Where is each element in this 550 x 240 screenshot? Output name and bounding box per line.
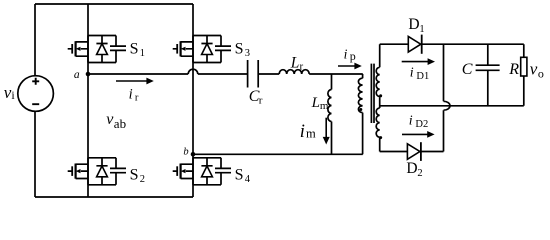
svg-text:i: i <box>344 46 348 61</box>
svg-text:a: a <box>74 69 80 81</box>
svg-text:S: S <box>235 167 244 184</box>
svg-text:S: S <box>130 167 139 184</box>
svg-text:p: p <box>350 49 356 63</box>
svg-text:m: m <box>306 127 316 141</box>
svg-text:S: S <box>130 40 139 57</box>
svg-text:D: D <box>408 16 419 33</box>
svg-text:C: C <box>462 61 473 78</box>
svg-text:b: b <box>183 147 188 158</box>
svg-text:ab: ab <box>114 116 126 131</box>
svg-text:2: 2 <box>140 174 145 185</box>
svg-text:2: 2 <box>417 168 422 179</box>
svg-text:L: L <box>290 55 300 72</box>
svg-text:i: i <box>409 114 413 129</box>
svg-text:D2: D2 <box>415 119 428 130</box>
svg-text:R: R <box>508 61 519 78</box>
svg-text:S: S <box>235 40 244 57</box>
svg-text:1: 1 <box>419 24 424 35</box>
svg-text:3: 3 <box>245 48 250 59</box>
svg-text:1: 1 <box>140 48 145 59</box>
svg-text:r: r <box>135 93 139 104</box>
svg-text:D1: D1 <box>416 71 429 82</box>
svg-text:4: 4 <box>245 174 251 185</box>
svg-text:o: o <box>538 67 544 81</box>
svg-text:r: r <box>300 61 304 73</box>
svg-text:D: D <box>406 160 417 177</box>
svg-text:L: L <box>311 95 320 111</box>
svg-text:i: i <box>129 87 133 103</box>
svg-text:i: i <box>410 65 414 80</box>
svg-text:i: i <box>300 122 305 142</box>
svg-text:r: r <box>259 94 263 106</box>
svg-text:v: v <box>530 60 538 79</box>
svg-text:m: m <box>320 100 329 112</box>
